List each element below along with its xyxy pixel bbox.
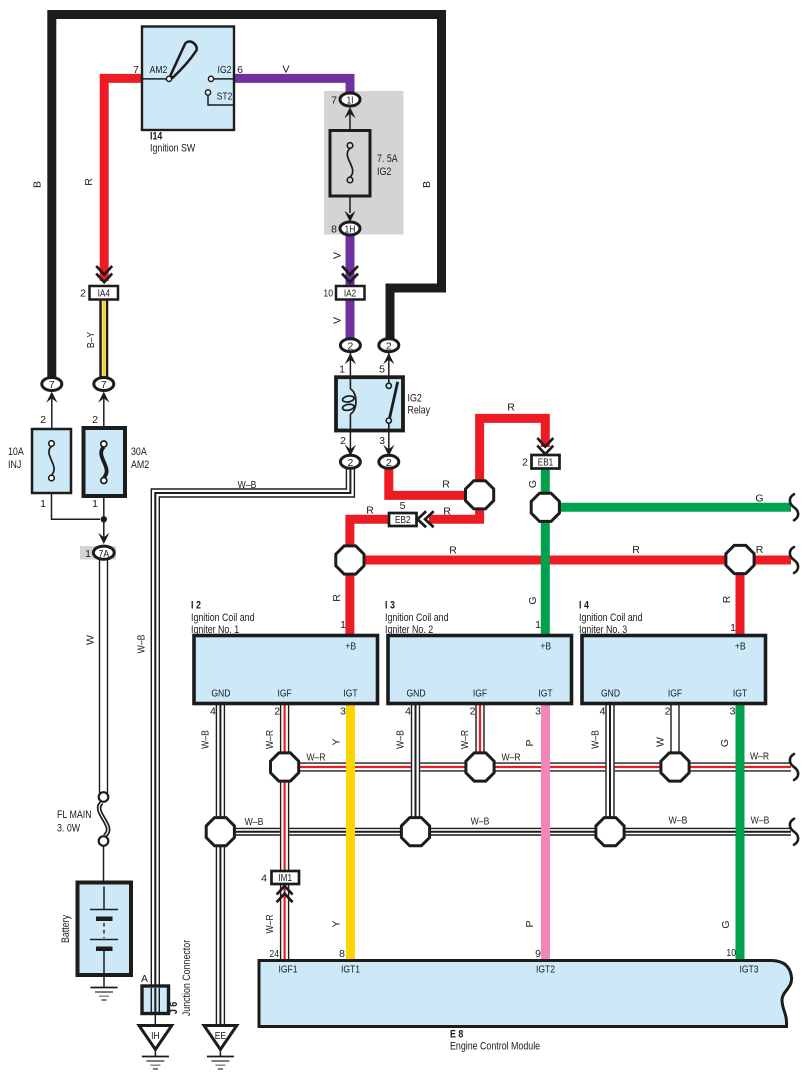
svg-text:2: 2 xyxy=(80,288,86,300)
svg-text:2: 2 xyxy=(40,414,46,426)
svg-text:+B: +B xyxy=(735,641,746,653)
arrow under connector 7 left xyxy=(46,392,57,430)
pin 10 at IA2 xyxy=(323,288,333,300)
wire label W-R under I3 IGF xyxy=(459,730,471,749)
wire V (violet) from ignition switch IG2 pin 6 to fuse connector 1I xyxy=(234,78,350,94)
wire label W-R bus left xyxy=(306,752,325,764)
wire label B left edge xyxy=(32,181,44,188)
I 2 GND terminal label xyxy=(211,688,230,700)
svg-text:E 8: E 8 xyxy=(450,1029,463,1041)
label IG2 fuse xyxy=(377,166,391,178)
svg-text:Y: Y xyxy=(331,920,343,927)
wire W-B ground bus across to right edge xyxy=(220,828,791,835)
svg-text:W–B: W–B xyxy=(590,730,602,749)
wire W-R from connector IM1 down to ECM IGF1 pin 24 xyxy=(281,884,289,961)
wire W (white) from I4 IGF pin 2 down to splice octagon J10 xyxy=(671,704,679,755)
relay coil xyxy=(342,377,356,430)
svg-text:R: R xyxy=(443,506,451,518)
component E8 Engine Control Module box xyxy=(259,961,792,1027)
connector oval 7 right xyxy=(94,378,114,392)
I 3 pin 2 xyxy=(470,706,476,718)
ECM IGF1 terminal label xyxy=(278,964,297,976)
wire label R main bus mid xyxy=(632,544,640,556)
chevron arrows into IA4 xyxy=(96,266,112,282)
pin 1 at I3 +B xyxy=(535,619,541,631)
svg-text:IGT: IGT xyxy=(538,688,553,700)
svg-text:6: 6 xyxy=(237,64,243,76)
I 4 +B terminal label xyxy=(735,641,746,653)
svg-text:FL MAIN: FL MAIN xyxy=(57,809,92,821)
label IA2 xyxy=(344,289,357,300)
wire label R main bus right xyxy=(756,544,764,556)
pin 7 at connector 1I xyxy=(331,95,337,107)
svg-text:R: R xyxy=(331,594,343,602)
svg-text:G: G xyxy=(720,920,732,928)
wire B (thick black) from connector 7 up across top to IG2 relay pin 5 xyxy=(52,15,442,381)
wire label W-R bus mid xyxy=(501,752,520,764)
svg-text:5: 5 xyxy=(379,364,385,376)
wire W-R from splice J6 down to connector IM1 xyxy=(281,780,289,871)
wire label B-Y xyxy=(85,332,97,348)
I 2 +B terminal label xyxy=(345,641,356,653)
svg-text:Relay: Relay xyxy=(408,405,431,417)
relay connector oval pin1 xyxy=(340,339,360,353)
connector oval 1H xyxy=(340,222,360,236)
wire B-Y (black/yellow) from connector IA4 to connector 7 xyxy=(99,300,108,380)
pin 6 of I14 xyxy=(237,64,243,76)
pin 5 of relay xyxy=(379,364,385,376)
pin 8 at connector 1H xyxy=(331,224,337,236)
wire W-B inside junction connector J6 xyxy=(151,988,159,1012)
svg-text:2: 2 xyxy=(348,341,354,352)
wire label P under I3 IGT xyxy=(524,739,536,746)
pin 1 at I4 +B xyxy=(730,622,736,634)
wire label V upper xyxy=(332,252,344,259)
wire Y (yellow) from I2 IGT pin 3 down to ECM IGT1 pin 8 xyxy=(346,704,355,961)
I 4 pin 3 xyxy=(730,706,736,718)
svg-text:IGT2: IGT2 xyxy=(536,964,555,976)
wire label R top of EB1 run xyxy=(507,402,515,414)
svg-text:IG2: IG2 xyxy=(218,64,232,76)
svg-text:R: R xyxy=(449,545,457,557)
svg-text:IGT: IGT xyxy=(343,688,358,700)
wire relay pin2 down xyxy=(345,431,356,457)
I 4 IGF terminal label xyxy=(668,688,682,700)
wire from fuse INJ pin 1 to junction xyxy=(52,493,101,519)
pin 1 of fuse AM2 xyxy=(92,498,98,510)
op ignition coil I 3 label xyxy=(385,600,449,637)
svg-text:30A: 30A xyxy=(131,446,147,458)
pin 2 of fuse INJ xyxy=(40,414,46,426)
wire G from splice J4 down to I3 +B pin 1 xyxy=(541,507,550,636)
op ignition coil I 2 label xyxy=(191,600,255,637)
fuse 7.5A IG2 element xyxy=(347,143,353,183)
wire from fuse to connector 1H xyxy=(349,196,351,213)
svg-text:1: 1 xyxy=(730,622,736,634)
ground under battery xyxy=(91,975,118,1000)
svg-text:2: 2 xyxy=(92,414,98,426)
svg-text:3. 0W: 3. 0W xyxy=(57,823,81,835)
wire label R to I4 xyxy=(721,595,733,603)
arrow into connector 7A xyxy=(98,533,109,544)
label Engine Control Module xyxy=(450,1041,540,1053)
chevron arrows into IA2 xyxy=(342,266,358,282)
connector IM1 box xyxy=(272,871,300,884)
svg-text:4: 4 xyxy=(261,873,267,885)
pin 2 of fuse AM2 xyxy=(92,414,98,426)
svg-text:W–R: W–R xyxy=(264,914,276,933)
svg-text:IG2: IG2 xyxy=(377,166,391,178)
relay bottom oval pin2 xyxy=(340,455,360,469)
connector 7A shading (gray panel) xyxy=(80,546,116,560)
svg-text:1I: 1I xyxy=(346,96,353,107)
connector oval 1I xyxy=(340,93,360,107)
ECM IGT2 terminal label xyxy=(536,964,555,976)
svg-text:B–Y: B–Y xyxy=(85,332,97,348)
svg-text:GND: GND xyxy=(601,688,620,700)
component Battery box xyxy=(78,883,132,976)
I 3 IGF terminal label xyxy=(473,688,487,700)
wire label W xyxy=(85,635,97,645)
I 3 +B terminal label xyxy=(540,641,551,653)
svg-text:I 2: I 2 xyxy=(191,600,201,612)
svg-text:2: 2 xyxy=(348,458,354,469)
continuation mark of wire W-R at right edge xyxy=(790,754,798,780)
splice octagon J10 xyxy=(661,753,689,781)
I 2 IGF terminal label xyxy=(277,688,291,700)
svg-text:R: R xyxy=(721,595,733,603)
chevron arrows into EB2 xyxy=(418,511,434,527)
svg-text:1: 1 xyxy=(85,548,91,560)
svg-text:2: 2 xyxy=(665,706,671,718)
svg-text:J 6: J 6 xyxy=(168,1002,180,1014)
label 30A AM2 xyxy=(131,446,149,471)
svg-text:IA4: IA4 xyxy=(98,289,111,300)
connector IA2 box xyxy=(336,286,365,300)
svg-text:ST2: ST2 xyxy=(217,91,233,103)
ground triangle EE xyxy=(204,1026,237,1050)
svg-text:1: 1 xyxy=(535,619,541,631)
label EB2 xyxy=(395,515,411,526)
svg-text:R: R xyxy=(756,544,764,556)
svg-text:4: 4 xyxy=(210,706,216,718)
svg-text:IG2: IG2 xyxy=(408,393,422,405)
svg-text:2: 2 xyxy=(274,706,280,718)
svg-text:IGF: IGF xyxy=(668,688,682,700)
svg-text:10: 10 xyxy=(726,947,736,959)
svg-text:IGT1: IGT1 xyxy=(341,964,360,976)
svg-text:W–B: W–B xyxy=(238,479,257,491)
wire label W-R above ECM xyxy=(264,914,276,933)
wire label G under EB1 xyxy=(527,480,539,488)
wire J6 to ground IH xyxy=(154,1014,156,1026)
svg-text:3: 3 xyxy=(730,706,736,718)
wire label V lower xyxy=(332,317,344,324)
chevron arrows out of IM1 xyxy=(277,886,293,902)
pin 10 at ECM xyxy=(726,947,736,959)
pin 7 of I14 xyxy=(133,64,139,76)
main wire R from splice J2 across to splice octagon J3 and right edge xyxy=(350,556,791,565)
continuation mark of wire G at right edge xyxy=(790,494,798,520)
label IA4 xyxy=(98,289,111,300)
wire W-R bus from splice on I2 IGF across to right edge xyxy=(285,763,791,771)
relay switch xyxy=(386,377,398,430)
label AM2 xyxy=(150,64,168,76)
wire label R left of EB2 xyxy=(366,505,374,517)
connector IA4 box xyxy=(90,286,119,300)
continuation mark of wire R at right edge xyxy=(790,547,798,573)
svg-text:GND: GND xyxy=(211,688,230,700)
svg-text:7: 7 xyxy=(331,95,337,107)
svg-text:W–B: W–B xyxy=(200,730,212,749)
relay bottom oval pin3 xyxy=(379,455,399,469)
svg-text:3: 3 xyxy=(340,706,346,718)
label IG2 Relay xyxy=(408,393,431,417)
wire W-B from I2 GND pin 4 down to splice octagon J5 xyxy=(216,704,224,819)
svg-text:Ignition Coil and: Ignition Coil and xyxy=(191,612,255,624)
svg-text:V: V xyxy=(332,317,344,324)
svg-text:I 3: I 3 xyxy=(385,600,395,612)
svg-text:W: W xyxy=(655,737,667,747)
svg-text:G: G xyxy=(527,596,539,604)
wire R from splice J2 down to I2 +B pin 1 xyxy=(345,560,354,636)
svg-text:W–B: W–B xyxy=(471,816,490,828)
svg-text:1: 1 xyxy=(339,364,345,376)
wire label R right of EB2 xyxy=(443,506,451,518)
svg-text:B: B xyxy=(421,181,433,188)
label IM1 xyxy=(278,873,292,884)
wire label G under I4 IGT xyxy=(719,739,731,747)
svg-text:R: R xyxy=(442,479,450,491)
fuse 30A AM2 element xyxy=(101,441,107,484)
wire label R to I2 xyxy=(331,594,343,602)
splice octagon J2 xyxy=(336,546,364,574)
arrow into connector 1H xyxy=(344,211,355,222)
svg-text:IGF: IGF xyxy=(277,688,291,700)
svg-text:8: 8 xyxy=(339,948,345,960)
label I14 xyxy=(150,131,162,143)
svg-text:W–R: W–R xyxy=(306,752,325,764)
fuse 7.5A IG2 box xyxy=(330,131,370,197)
svg-text:7A: 7A xyxy=(99,549,109,560)
svg-text:3: 3 xyxy=(379,435,385,447)
wire label W-B bus left xyxy=(245,816,264,828)
svg-text:A: A xyxy=(141,973,148,985)
svg-text:W–R: W–R xyxy=(750,751,769,763)
wire label W-B relay branch xyxy=(238,479,257,491)
svg-text:7: 7 xyxy=(133,64,139,76)
svg-text:W–R: W–R xyxy=(264,730,276,749)
svg-text:24: 24 xyxy=(269,948,279,960)
I 3 IGT terminal label xyxy=(538,688,553,700)
component I14 Ignition SW box xyxy=(142,27,234,131)
label 10A INJ xyxy=(8,446,24,471)
pin 1 of relay xyxy=(339,364,345,376)
I 3 pin 4 xyxy=(405,706,411,718)
svg-text:EB1: EB1 xyxy=(538,458,554,469)
svg-text:1H: 1H xyxy=(345,225,356,236)
svg-text:G: G xyxy=(719,739,731,747)
pin 4 at IM1 xyxy=(261,873,267,885)
svg-text:+B: +B xyxy=(540,641,551,653)
wire label V horizontal xyxy=(282,64,289,76)
wire label Y above ECM xyxy=(331,920,343,927)
label IG2 of I14 xyxy=(218,64,232,76)
svg-text:IM1: IM1 xyxy=(278,873,292,884)
svg-text:W–R: W–R xyxy=(501,752,520,764)
component I 4 Ignition Coil and Igniter box xyxy=(582,636,766,704)
svg-text:G: G xyxy=(755,493,763,505)
fuse 10A INJ element xyxy=(49,441,55,481)
splice octagon J8 xyxy=(466,753,494,781)
svg-text:Y: Y xyxy=(331,738,343,745)
svg-text:Battery: Battery xyxy=(60,914,72,943)
svg-text:2: 2 xyxy=(386,341,392,352)
wire label G above ECM xyxy=(720,920,732,928)
label FL MAIN 3.0W xyxy=(57,809,92,835)
wire label W-B bus right1 xyxy=(669,815,688,827)
svg-text:I 4: I 4 xyxy=(579,600,589,612)
label 7.5A xyxy=(377,153,398,165)
relay connector oval pin5 xyxy=(379,339,399,353)
splice octagon J6 xyxy=(271,753,299,781)
wire W-B from relay connector 2 down and across to junction connector J6 xyxy=(151,467,354,1012)
pin 2 at IA4 xyxy=(80,288,86,300)
pin 5 at EB2 xyxy=(400,500,406,512)
fusible link FL MAIN 3.0W xyxy=(99,792,109,883)
wire R from splice J1 up over to connector EB1 xyxy=(480,418,546,505)
wire R from relay connector 3 to splice octagon J1 xyxy=(389,467,470,495)
label Battery xyxy=(60,914,72,943)
svg-text:2: 2 xyxy=(386,458,392,469)
wire relay pin5 to oval xyxy=(383,351,394,377)
svg-text:P: P xyxy=(524,920,536,927)
svg-text:W–B: W–B xyxy=(395,730,407,749)
svg-text:7: 7 xyxy=(101,380,107,391)
connector oval 7A xyxy=(93,546,114,560)
component I 2 Ignition Coil and Igniter box xyxy=(194,636,378,704)
wire label W-B bus right2 xyxy=(751,815,770,827)
wire G from splice J4 right to edge xyxy=(545,503,791,512)
splice octagon J4 xyxy=(531,493,559,521)
svg-text:Junction Connector: Junction Connector xyxy=(181,940,193,1017)
wire label Y under I2 IGT xyxy=(331,738,343,745)
wire label W-B under I4 GND xyxy=(590,730,602,749)
op ignition coil I 4 label xyxy=(579,600,643,637)
wire label G to I3 xyxy=(527,596,539,604)
splice octagon J1 xyxy=(466,481,494,509)
ground hatch under IH xyxy=(142,1050,169,1070)
svg-text:10: 10 xyxy=(323,288,333,300)
svg-text:EB2: EB2 xyxy=(395,515,411,526)
ignition-switch-circuit fuse block shading (gray panel) xyxy=(324,91,404,235)
I 4 GND terminal label xyxy=(601,688,620,700)
svg-text:4: 4 xyxy=(600,706,606,718)
fuse 30A AM2 box xyxy=(84,428,126,496)
svg-text:9: 9 xyxy=(535,948,541,960)
I 2 IGT terminal label xyxy=(343,688,358,700)
svg-text:Ignition SW: Ignition SW xyxy=(150,143,196,155)
wire label W-B to J6 xyxy=(136,635,148,654)
svg-text:1: 1 xyxy=(40,498,46,510)
wire label W-R bus right xyxy=(750,751,769,763)
arrow into connector 1I xyxy=(344,107,355,131)
ground triangle IH xyxy=(139,1026,172,1050)
svg-text:2: 2 xyxy=(470,706,476,718)
pin 2 of relay xyxy=(340,435,346,447)
wire W-R from I2 IGF pin 2 down to splice octagon J6 xyxy=(281,704,289,755)
wire relay pin1 to oval xyxy=(345,351,356,377)
wire label R relay-to-J1 xyxy=(442,479,450,491)
wire G from connector EB1 down to splice octagon J4 xyxy=(541,469,550,499)
splice octagon J3 xyxy=(726,545,754,573)
wire label R left xyxy=(83,178,95,186)
wire R from splice J3 down to I4 +B pin 1 xyxy=(736,560,745,636)
wire label W-B bus mid xyxy=(471,816,490,828)
svg-text:1: 1 xyxy=(92,498,98,510)
pin A at J6 xyxy=(141,973,148,985)
connector oval 7 left xyxy=(42,378,62,392)
svg-text:W–B: W–B xyxy=(245,816,264,828)
I14 IG2 contact xyxy=(208,76,234,81)
wire W-R from I3 IGF pin 2 down to splice octagon J8 xyxy=(476,704,484,755)
I 3 pin 3 xyxy=(535,706,541,718)
I 4 pin 2 xyxy=(665,706,671,718)
svg-text:R: R xyxy=(507,402,515,414)
relay IG2 box xyxy=(336,377,403,430)
label E 8 xyxy=(450,1029,463,1041)
svg-text:GND: GND xyxy=(406,688,425,700)
svg-text:IGF: IGF xyxy=(473,688,487,700)
junction connector J6 box xyxy=(142,986,169,1014)
I 3 GND terminal label xyxy=(406,688,425,700)
connector EB2 box xyxy=(389,513,417,526)
svg-text:R: R xyxy=(83,178,95,186)
svg-text:+B: +B xyxy=(345,641,356,653)
splice octagon J5 xyxy=(206,818,234,846)
continuation mark of wire W-B at right edge xyxy=(790,819,798,845)
pin 3 of relay xyxy=(379,435,385,447)
wire G (green) from I4 IGT pin 3 down to ECM IGT3 pin 10 xyxy=(736,704,745,961)
svg-text:P: P xyxy=(524,739,536,746)
label Junction Connector xyxy=(181,940,193,1017)
svg-text:W–B: W–B xyxy=(751,815,770,827)
I 2 pin 2 xyxy=(274,706,280,718)
wire label R main bus left xyxy=(449,545,457,557)
junction dot xyxy=(101,516,107,522)
label J 6 xyxy=(168,1002,180,1014)
svg-text:7. 5A: 7. 5A xyxy=(377,153,398,165)
svg-text:IGT: IGT xyxy=(733,688,748,700)
pin 8 at ECM xyxy=(339,948,345,960)
wire label W-B under I3 GND xyxy=(395,730,407,749)
ground hatch under EE xyxy=(207,1050,234,1070)
svg-text:IA2: IA2 xyxy=(344,289,357,300)
svg-text:8: 8 xyxy=(331,224,337,236)
ECM IGT1 terminal label xyxy=(341,964,360,976)
I 4 pin 4 xyxy=(600,706,606,718)
component I 3 Ignition Coil and Igniter box xyxy=(388,636,572,704)
chevron arrows into EB1 xyxy=(537,438,553,454)
svg-text:7: 7 xyxy=(49,380,55,391)
I14 ST2 contact xyxy=(205,90,234,105)
label EB1 xyxy=(538,458,554,469)
pin 1 at connector 7A xyxy=(85,548,91,560)
svg-text:V: V xyxy=(332,252,344,259)
wire V (violet) from fuse connector 1H down to connector IA2 xyxy=(346,234,355,286)
splice octagon J9 xyxy=(596,818,624,846)
arrow under connector 7 right xyxy=(98,392,109,429)
